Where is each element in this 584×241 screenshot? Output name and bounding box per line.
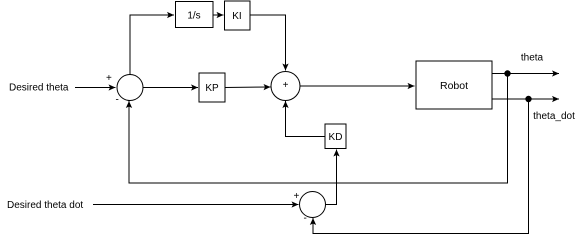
summing junction S3 xyxy=(300,192,326,218)
svg-text:theta: theta xyxy=(521,53,544,64)
wire KD output to S2 bottom xyxy=(286,101,326,137)
wire 1/s to KI xyxy=(213,14,224,16)
wire S1 top branch to integrator 1/s xyxy=(130,15,174,75)
block Robot plant xyxy=(416,61,492,109)
svg-text:Robot: Robot xyxy=(440,80,468,92)
svg-text:-: - xyxy=(304,213,307,224)
svg-text:theta_dot: theta_dot xyxy=(533,111,575,122)
wire KI to summing junction S2 top xyxy=(250,15,286,71)
wire Robot theta output xyxy=(492,73,559,75)
svg-text:+: + xyxy=(294,191,300,202)
svg-text:-: - xyxy=(116,95,119,106)
wire S2 to Robot xyxy=(300,85,415,87)
wire S3 output up to KD bottom xyxy=(326,150,337,205)
svg-text:Desired theta dot: Desired theta dot xyxy=(7,200,83,211)
wire theta feedback to S1 bottom xyxy=(129,74,508,184)
block KP gain xyxy=(199,73,225,102)
svg-text:+: + xyxy=(106,73,112,84)
block KD gain xyxy=(325,124,346,149)
wire KP to summing junction S2 xyxy=(225,86,271,89)
svg-text:+: + xyxy=(283,80,289,91)
svg-text:1/s: 1/s xyxy=(187,11,200,22)
node junction dot on theta_dot output xyxy=(525,96,531,102)
svg-text:KI: KI xyxy=(232,11,241,22)
svg-text:KP: KP xyxy=(205,83,219,94)
summing junction S2 xyxy=(271,72,300,101)
wire Desired theta dot input into summing junction S3 xyxy=(93,204,299,206)
summing junction S1 xyxy=(117,75,143,101)
wire theta_dot feedback to S3 bottom xyxy=(313,99,529,234)
wire S1 to KP xyxy=(143,87,198,89)
node junction dot on theta output xyxy=(504,70,510,76)
svg-text:Desired theta: Desired theta xyxy=(9,83,69,94)
wire Robot theta_dot output xyxy=(492,98,559,100)
block 1/s integrator xyxy=(176,2,214,28)
svg-text:KD: KD xyxy=(329,132,343,143)
wire Desired theta input into summing junction S1 xyxy=(75,87,116,89)
block KI gain xyxy=(225,1,251,30)
